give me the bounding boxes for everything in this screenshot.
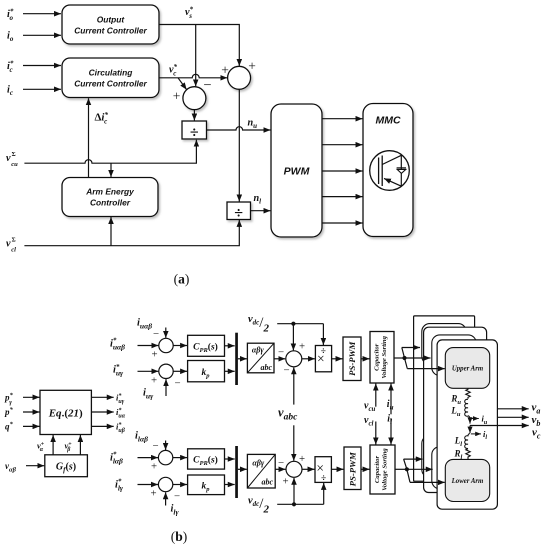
svg-text:v*s: v*s	[185, 6, 194, 21]
wire v_cu with hop over dIc, to D1 bottom	[24, 140, 196, 164]
wire abc1 to sum1	[274, 358, 285, 360]
svg-text:v*c: v*c	[169, 63, 178, 78]
block alphabetagamma/abc transform 2	[247, 454, 275, 488]
svg-text:vαβ: vαβ	[5, 461, 17, 474]
svg-text:−: −	[174, 491, 180, 503]
svg-text:iuγ: iuγ	[143, 388, 154, 401]
block PS-PWM 2	[344, 447, 361, 490]
wire output v_c from arm midpoint	[470, 425, 529, 427]
wire i*_lalphabeta arrow into c3	[138, 457, 159, 459]
diode symbol	[397, 167, 406, 169]
svg-text:Upper Arm: Upper Arm	[452, 366, 483, 373]
wire PWM to MMC arrow 2	[322, 144, 363, 146]
IGBT emitter diagonal with arrow to bar	[384, 178, 401, 186]
svg-text:+: +	[151, 349, 157, 361]
wire abc2 to sum2	[275, 468, 285, 470]
svg-text:abc: abc	[261, 363, 273, 372]
wire v_cl to D2 bottom	[24, 220, 239, 246]
block CPR1	[188, 335, 225, 356]
svg-text:v+α: v+α	[37, 441, 45, 454]
wire p* arrow	[23, 411, 40, 413]
wire v_dc/2 bottom horizontal	[277, 503, 324, 505]
svg-text:abc: abc	[262, 477, 274, 486]
IGBT collector diagonal	[382, 155, 401, 164]
summer c2	[159, 364, 173, 378]
svg-text:i*uαβ: i*uαβ	[110, 337, 125, 352]
diode branch vertical	[400, 155, 402, 186]
Upper Arm block	[445, 348, 489, 389]
wire i_c input arrow	[23, 88, 61, 90]
inductor L_u coil	[465, 399, 468, 416]
svg-text:cl: cl	[11, 247, 16, 254]
wire output v_b	[497, 416, 528, 418]
wire v_c* with hop over v_s* branch	[159, 74, 227, 78]
svg-text:vabc: vabc	[278, 406, 298, 423]
svg-text:Voltage Sorting: Voltage Sorting	[382, 448, 389, 491]
fan2 diagonal	[404, 459, 410, 482]
wire PWM to MMC arrow 5	[322, 222, 363, 224]
svg-text:Controller: Controller	[90, 198, 131, 208]
wire v_s* from output controller to upper summer column	[159, 25, 239, 67]
block PS-PWM 1	[343, 337, 361, 381]
svg-text:αβγ: αβγ	[252, 346, 265, 355]
wire S2 output to divider D1	[193, 110, 195, 121]
phase leg front rectangle	[437, 340, 497, 509]
svg-text:vdc/2: vdc/2	[248, 314, 269, 334]
wire bar2 to abc2	[238, 468, 247, 470]
svg-text:−: −	[153, 328, 159, 340]
block Eq.(21)	[40, 390, 91, 434]
svg-text:PS-PWM: PS-PWM	[348, 451, 358, 486]
wire arm junction lower with current arrow	[469, 426, 471, 434]
middle lower arm module	[432, 447, 476, 489]
wire i_ugamma up into c2	[165, 379, 167, 396]
svg-text:iu: iu	[387, 399, 394, 412]
svg-text:i*lγ: i*lγ	[115, 478, 124, 493]
svg-text:i*lαβ: i*lαβ	[110, 451, 123, 466]
wire PWM to MMC arrow 4	[322, 196, 363, 198]
wire n_u from D1 to PWM with hop	[207, 127, 271, 130]
block Arm Energy Controller	[62, 178, 158, 217]
IGBT symbol circle	[370, 151, 410, 191]
block Capacitor Voltage Sorting 2	[370, 445, 395, 494]
svg-text:iuαβ: iuαβ	[137, 317, 152, 330]
wire n_l from D2 to PWM	[251, 210, 271, 212]
wire v_dc/2 drop into sum1 top	[292, 324, 294, 351]
svg-text:÷: ÷	[190, 125, 199, 142]
fan1 arrow to Upper Arm	[407, 368, 445, 370]
wire c4 to kp2	[173, 484, 187, 486]
wire PWM to MMC arrow 3	[322, 170, 363, 172]
svg-text:+: +	[151, 461, 157, 473]
svg-text:Current Controller: Current Controller	[74, 79, 147, 89]
wire S1 output down to divider D2	[238, 89, 240, 201]
IGBT gate bar left	[378, 158, 380, 185]
wire PSPWM1 to sorting1	[361, 358, 370, 360]
wire v_dc/2 drop into mult1 top	[322, 324, 324, 345]
wire mult1 to PSPWM1	[332, 358, 343, 360]
svg-text:i*uγ: i*uγ	[113, 363, 124, 378]
summer sum2	[286, 461, 302, 477]
wire arm junction upper with current arrow	[468, 416, 470, 424]
svg-text:Eq.(21): Eq.(21)	[48, 408, 83, 420]
wire delta i_c* output of AEC up to circulating controller	[88, 98, 90, 177]
svg-text:Capacitor: Capacitor	[374, 456, 381, 484]
junction dot on v_dc/2	[291, 322, 295, 326]
fan2 arrow to middle leg	[407, 468, 433, 470]
svg-text:q*: q*	[5, 421, 14, 432]
svg-text:Σ: Σ	[12, 151, 16, 158]
svg-text:+: +	[150, 488, 156, 500]
svg-text:+: +	[151, 374, 157, 386]
back upper arm module	[422, 324, 466, 365]
wire i_c* input arrow	[23, 65, 61, 67]
fan2 arrow to back leg	[404, 458, 423, 460]
wire i*_lgamma arrow into c4	[138, 484, 159, 486]
wire i*_ualphabeta arrow into c1	[138, 345, 159, 347]
wire v_cu branch down into Arm Energy Controller	[110, 163, 112, 177]
svg-text:vdc/2: vdc/2	[248, 495, 269, 515]
svg-text:ilαβ: ilαβ	[135, 431, 148, 444]
wire v_cu up into sorting1	[375, 384, 377, 407]
svg-text:p*γ: p*γ	[4, 392, 14, 406]
wire v_cl down into sorting2	[375, 422, 377, 445]
svg-text:−: −	[174, 378, 180, 390]
wire v_abc up into sum1 bottom	[293, 367, 295, 404]
block kp1	[188, 361, 225, 382]
wire i*_ugamma arrow into c2	[138, 370, 159, 372]
svg-text:vcu: vcu	[364, 401, 376, 414]
divider D2	[227, 202, 251, 220]
wire output v_a	[497, 408, 528, 410]
svg-text:−: −	[203, 78, 211, 94]
svg-text:−: −	[283, 365, 289, 377]
svg-text:+: +	[299, 341, 305, 353]
summer c3	[158, 450, 172, 464]
svg-text:il: il	[387, 414, 392, 427]
block MMC	[363, 104, 413, 237]
svg-text:i*uβ: i*uβ	[116, 421, 126, 434]
svg-text:nl: nl	[254, 193, 262, 206]
wire i_lalphabeta down arrow	[165, 441, 167, 451]
svg-text:Lower Arm: Lower Arm	[451, 478, 484, 485]
svg-text:i*uα: i*uα	[116, 407, 126, 420]
svg-text:PWM: PWM	[284, 166, 310, 178]
svg-text:nu: nu	[248, 118, 258, 131]
fan2 arrow to Lower Arm	[410, 481, 445, 483]
wire kp1 to bar1	[225, 370, 235, 372]
svg-text:+: +	[221, 63, 229, 78]
wire v_abc down into sum2 top	[293, 425, 295, 461]
svg-text:Voltage Sorting: Voltage Sorting	[381, 335, 388, 378]
wire v_alpha+ up arrow	[52, 435, 54, 455]
wire i_ualphabeta down arrow	[165, 328, 167, 338]
svg-text:Σ: Σ	[12, 237, 16, 244]
wire Eq21 output 2	[91, 411, 113, 413]
wire CPR1 to bar1	[225, 345, 235, 347]
wire mult2 to PSPWM2	[331, 468, 343, 470]
block Capacitor Voltage Sorting 1	[370, 332, 394, 384]
wire v_alphabeta arrow	[26, 465, 44, 467]
block kp2	[188, 475, 225, 495]
wire i_lgamma up into c4	[165, 492, 167, 505]
svg-text:+: +	[248, 59, 256, 74]
wire kp2 to bar2	[225, 484, 235, 486]
svg-text:(a): (a)	[174, 272, 190, 287]
summer sum1	[286, 351, 302, 367]
svg-text:MMC: MMC	[375, 115, 400, 127]
block PWM	[271, 104, 322, 237]
svg-text:PS-PWM: PS-PWM	[347, 341, 357, 376]
wire c3 to CPR2	[173, 457, 187, 459]
svg-text:p*: p*	[4, 407, 14, 418]
summing bar 2	[235, 446, 238, 498]
block Output Current Controller	[62, 5, 159, 44]
svg-text:Δi*c: Δi*c	[95, 111, 109, 126]
svg-text:+: +	[173, 89, 181, 104]
wire sum1 to mult1	[302, 358, 315, 360]
divider D1	[182, 121, 207, 139]
block mult2 (x and divide)	[315, 457, 331, 483]
svg-text:Capacitor: Capacitor	[374, 343, 381, 371]
svg-text:cu: cu	[11, 161, 18, 168]
wire v_cl branch up into Arm Energy Controller	[110, 217, 112, 246]
block CPR2	[188, 449, 225, 469]
wire v_dc/2 up into sum2 bottom	[293, 478, 295, 505]
Lower Arm block	[445, 459, 489, 501]
svg-text:+: +	[282, 476, 288, 488]
wire c2 to kp1	[173, 370, 187, 372]
phase leg back rectangle	[414, 316, 475, 481]
wire v_dc/2 up into mult2 bottom	[323, 483, 325, 504]
wire i_l down into sorting2	[390, 418, 392, 444]
resistor R_u zigzag	[466, 388, 470, 399]
svg-text:i*c: i*c	[7, 60, 14, 75]
svg-text:Circulating: Circulating	[89, 68, 133, 78]
summer S1 upper (n_l path)	[228, 66, 251, 89]
svg-text:v+β: v+β	[65, 441, 73, 454]
svg-text:i*o: i*o	[7, 8, 14, 23]
svg-text:Output: Output	[97, 15, 126, 25]
middle upper arm module	[432, 335, 476, 376]
svg-text:(b): (b)	[171, 529, 188, 544]
wire v_s* branch down to lower summer	[195, 25, 197, 87]
wire Eq21 output 1	[91, 396, 113, 398]
svg-text:÷: ÷	[234, 205, 243, 222]
block Circulating Current Controller	[62, 58, 159, 98]
svg-text:Current Controller: Current Controller	[74, 26, 147, 36]
wire v_c* diagonal branch to lower summer	[178, 78, 187, 90]
svg-text:io: io	[7, 31, 14, 44]
svg-text:vcl: vcl	[364, 415, 374, 428]
wire i_o* input arrow	[23, 13, 61, 15]
wire p_gamma* arrow	[23, 396, 40, 398]
wire Eq21 output 3	[91, 425, 113, 427]
resistor R_l zigzag	[466, 449, 470, 460]
summer c1	[159, 338, 173, 352]
inductor L_l coil	[465, 434, 470, 449]
wire sorting1 to fan dot	[394, 357, 405, 359]
svg-text:×: ×	[317, 351, 325, 366]
svg-text:−: −	[278, 457, 284, 469]
wire v_beta+ up arrow	[79, 435, 81, 455]
wire i_u up into sorting1	[390, 384, 392, 415]
phase leg middle rectangle	[424, 327, 487, 492]
back lower arm module	[422, 435, 466, 477]
wire sorting2 to fan dot	[395, 468, 407, 470]
wire v_dc/2 top horizontal	[277, 323, 323, 325]
summing bar 1	[235, 333, 238, 385]
fan1 arrow to middle leg	[405, 357, 431, 359]
svg-text:ilγ: ilγ	[171, 504, 180, 517]
wire sum2 to mult2	[302, 468, 315, 470]
wire CPR2 to bar2	[225, 458, 235, 460]
svg-text:Gf(s): Gf(s)	[56, 462, 76, 475]
wire i_o input arrow	[23, 34, 61, 36]
svg-text:ic: ic	[7, 85, 13, 98]
fan1 junction dot	[402, 356, 406, 360]
svg-text:vc: vc	[532, 427, 541, 441]
svg-text:÷: ÷	[321, 474, 326, 484]
svg-text:i*uγ: i*uγ	[116, 392, 125, 405]
fan1 diagonal	[402, 348, 408, 369]
IGBT body bar right	[381, 156, 383, 187]
wire PWM to MMC arrow 1	[322, 118, 363, 120]
summer c4	[158, 477, 172, 491]
wire i_u pointer	[470, 418, 479, 420]
svg-text:Arm Energy: Arm Energy	[85, 187, 134, 197]
wire PSPWM2 to sorting2	[361, 468, 370, 470]
svg-text:αβγ: αβγ	[252, 458, 265, 467]
svg-text:−: −	[278, 347, 284, 359]
block Gf(s)	[45, 455, 88, 477]
svg-text:−: −	[152, 440, 158, 452]
summer S2 lower (n_u path)	[183, 87, 206, 110]
junction dot on bottom v_dc/2	[292, 502, 296, 506]
wire bar1 to abc1	[238, 358, 247, 360]
block alphabetagamma/abc transform 1	[247, 343, 274, 373]
wire q* arrow	[23, 425, 40, 427]
block mult1 (x and divide)	[315, 346, 331, 372]
fan1 arrow to back leg	[402, 347, 420, 349]
fan2 junction dot	[405, 467, 409, 471]
wire i_l pointer	[471, 433, 481, 435]
wire c1 to CPR1	[173, 345, 187, 347]
